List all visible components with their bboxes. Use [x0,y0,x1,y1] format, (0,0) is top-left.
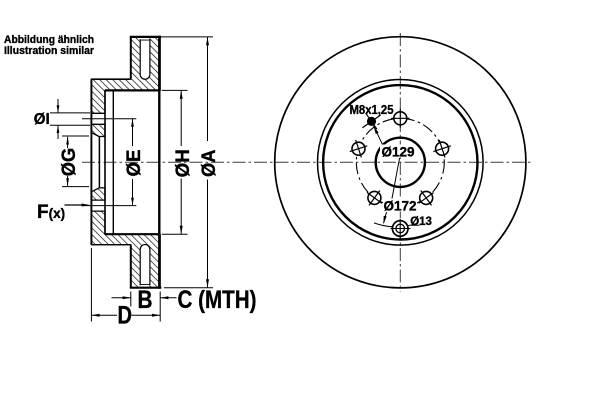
svg-text:ØI: ØI [34,111,50,128]
dimension ØA extension lines [162,36,213,38]
bolt hole upper right [433,140,451,158]
svg-text:ØE: ØE [124,150,145,177]
svg-text:ØG: ØG [59,148,80,176]
svg-text:Ø129: Ø129 [381,145,414,160]
bolt circle (dash-dot) [356,118,444,206]
main horizontal centerline [82,161,532,163]
dimension D line and arrows [91,314,117,316]
svg-text:ØH: ØH [173,149,194,177]
dimension ØE line and arrows [132,119,134,146]
bold edge: hat bore bottom [105,233,160,235]
dimension D extension line left [90,248,92,322]
bore middle edge line [98,136,100,188]
bolt hole 12 o'clock [391,109,409,127]
section: flange piece between bore chamfer and bottom bolt hole (hatched) [91,188,105,200]
svg-text:Ø13: Ø13 [410,216,432,228]
flange right face line [104,90,106,234]
leader line Ø129/Ø172 [392,158,400,200]
bolt hole lower right [419,190,434,205]
bold edge: hat bore top [105,89,160,91]
section: top vent slot (white) [140,40,150,79]
F(x) leader arrow [65,204,84,206]
svg-text:B: B [138,286,153,314]
section: hat outer surface line below inner plate (top) [91,78,130,80]
section: top friction ring + hat band + flange upper (hatched) [91,37,160,113]
bold edge: ring top face [130,36,162,38]
vent slot top white cap [141,38,149,40]
label Ø172 [383,199,417,212]
Ø13 leader arc [374,223,420,227]
bolt hole centerline top [82,118,136,120]
M8 leader line [374,126,383,146]
bolt hole upper left [350,140,368,158]
service hole Ø13 [391,219,411,238]
front view vertical centerline [399,33,401,292]
dimension ØI extension lines [50,112,90,114]
bold edge: inner plate face top [130,37,132,79]
bolt hole lower left [367,190,382,205]
bold edge: flange back face [90,79,92,244]
dimension ØG line and arrows [67,137,69,148]
hat rim circle (bold) [323,85,477,239]
bold edge: inner plate face bottom [130,245,132,287]
Ø172 arrow [384,212,387,223]
dimension ØI line and arrows [57,99,59,113]
bolt hole centerline bottom [82,205,136,207]
dimension B/C/D extension line right [159,292,161,322]
dimension ØA line and arrows [207,37,209,141]
svg-text:M8x1,25: M8x1,25 [350,103,394,117]
svg-text:D: D [118,302,133,330]
svg-text:Illustration similar: Illustration similar [4,45,95,57]
drum inner edge line [112,90,114,234]
section: flange piece between top bolt hole and bore chamfer (hatched) [91,124,105,136]
dimension ØH line and arrows [180,91,182,146]
bold edge: outboard face line [158,36,160,289]
label Ø129 [380,145,416,158]
friction ring inner circle [318,80,484,246]
dimension B arrows [112,297,131,299]
svg-text:ØA: ØA [199,149,220,177]
vent slot bottom white cap [141,285,149,287]
section: hat outer surface line above inner plate (bottom) [91,244,130,246]
M8 threaded hole (filled) [362,114,380,129]
svg-text:Ø172: Ø172 [383,199,416,214]
center bore circle (bold) [376,138,425,187]
bold edge: ring bottom face [130,287,162,289]
svg-text:C (MTH): C (MTH) [178,286,257,314]
dimension B extension line left [130,292,132,307]
dimension ØG extension lines [62,135,89,137]
section: bottom friction ring + hat band + flange lower (hatched) [91,211,160,288]
dimension ØH extension lines [162,89,188,91]
outer circle [275,37,526,288]
section: bottom vent slot (white) [140,245,150,285]
svg-text:F(x): F(x) [37,202,65,223]
